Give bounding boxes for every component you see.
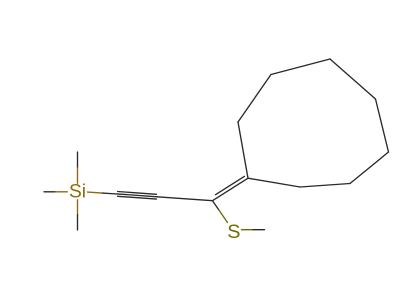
bond Si-CH3 down (Si-colored half)	[77, 200, 79, 215]
ring bond G-H lower-right edge	[350, 152, 389, 184]
ring bond I-B bottom-left edge	[248, 178, 300, 187]
bond S-CH3 (black half)	[253, 229, 265, 231]
triple bond C#C upper parallel line	[118, 192, 157, 195]
bond Si-CH3 left (outer black half)	[44, 191, 56, 193]
bond Si-CH3 down (outer black half)	[77, 215, 79, 230]
bond Si-C alkyne (Si-colored half)	[88, 192, 103, 193]
double bond A=B main line	[213, 178, 249, 201]
ring bond B-C left edge	[238, 122, 248, 178]
triple bond C#C lower parallel line	[118, 196, 157, 199]
bond C-A vinyl	[157, 197, 213, 201]
bond A-S (S-colored half)	[219, 210, 228, 223]
ring bond E-F upper-right edge	[330, 59, 376, 99]
ring bond F-G right edge	[376, 99, 389, 152]
bond A-S (black half)	[213, 201, 219, 210]
svg-text:S: S	[227, 221, 240, 243]
triple bond C#C center line	[117, 194, 157, 197]
bond Si-C alkyne (black half)	[103, 192, 118, 195]
bond S-CH3 (S-colored half)	[242, 229, 254, 231]
ring bond H-I bottom-right edge	[300, 184, 350, 188]
bond Si-CH3 up (outer black half)	[77, 152, 79, 168]
bond Si-CH3 up (Si-colored half)	[77, 168, 79, 184]
ring bond C-D upper-left edge	[238, 75, 271, 123]
bond Si-CH3 left (Si-colored half)	[56, 191, 68, 193]
double bond A=B second line	[216, 176, 245, 194]
ring bond D-E top edge	[271, 59, 330, 75]
